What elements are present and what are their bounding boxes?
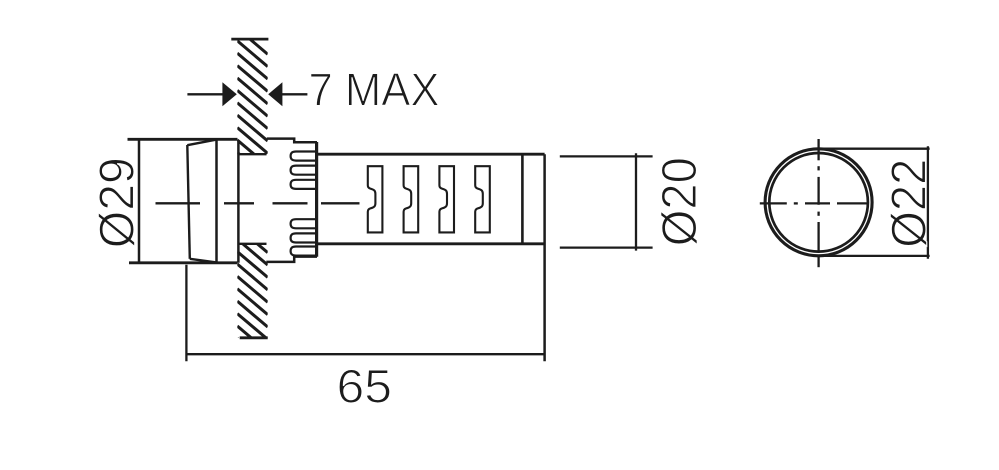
dia22 top extension <box>819 148 930 150</box>
65 dim line <box>186 353 544 355</box>
svg-text:Ø29: Ø29 <box>90 157 144 248</box>
bezel bottom edge <box>129 261 238 264</box>
bezel chamfer top <box>187 140 216 146</box>
svg-text:7 MAX: 7 MAX <box>309 64 440 116</box>
panel hole top edge <box>239 153 267 155</box>
body top edge <box>317 153 545 156</box>
slot 3 <box>439 166 454 232</box>
bezel top edge <box>128 138 238 141</box>
panel top cap <box>231 38 268 41</box>
svg-text:Ø22: Ø22 <box>882 159 936 248</box>
svg-text:Ø20: Ø20 <box>653 157 707 246</box>
neck vertical <box>315 142 318 257</box>
bezel chamfer bottom <box>190 259 217 263</box>
bezel front face / dia29 dim line <box>138 139 141 262</box>
neck top edge <box>267 139 317 143</box>
slot 4 <box>475 166 490 232</box>
centerline left view <box>156 202 360 204</box>
7max dim tail right <box>281 93 307 95</box>
dia22 bottom extension <box>819 255 930 257</box>
neck bottom edge <box>266 257 317 262</box>
front view outer circle <box>765 149 872 256</box>
body bottom edge <box>317 242 545 245</box>
body end cap line <box>521 154 524 244</box>
body end face and 65 right extension <box>543 154 546 361</box>
dia22 dim line <box>927 146 929 259</box>
7max dim tail left <box>187 93 224 95</box>
slot 2 <box>404 166 419 232</box>
dia20 top extension <box>560 155 653 157</box>
bezel back face <box>237 140 240 263</box>
7max arrow right <box>268 82 282 106</box>
dia20 dim line <box>635 153 637 250</box>
bezel inner line <box>215 139 218 262</box>
slot 1 <box>368 166 383 232</box>
7max arrow left <box>222 82 236 106</box>
svg-text:65: 65 <box>337 360 393 413</box>
bezel taper line <box>187 145 190 259</box>
dia20 bottom extension <box>560 246 653 248</box>
panel hatching <box>237 28 267 364</box>
65 left extension <box>185 265 187 362</box>
front view inner circle <box>769 153 868 252</box>
panel bottom cap <box>240 336 268 339</box>
neck serration teeth <box>291 152 317 256</box>
panel hole bottom edge <box>239 243 267 245</box>
front view horizontal centerline <box>760 202 867 204</box>
front view vertical centerline <box>817 139 819 267</box>
